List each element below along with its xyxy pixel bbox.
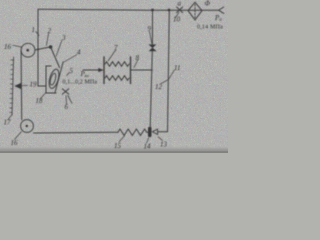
- wire: cord left run: [20, 51, 23, 120]
- leader 3: [56, 41, 62, 57]
- svg-text:13: 13: [160, 141, 168, 149]
- wire: top supply line: [38, 9, 219, 10]
- leader 4: [64, 55, 77, 63]
- svg-text:14: 14: [144, 143, 152, 151]
- leader 11: [168, 70, 174, 80]
- svg-text:0,14 МПа: 0,14 МПа: [197, 25, 223, 31]
- plate 14 (flapper plate): [148, 127, 152, 137]
- bottom dark band: [0, 146, 228, 154]
- svg-text:6: 6: [65, 103, 69, 111]
- node: junction line B: [168, 9, 171, 12]
- wire: line A vertical (to nozzle 9 and plate 14): [151, 10, 153, 44]
- nozzle 13 (open triangle): [152, 129, 157, 134]
- svg-text:1: 1: [32, 26, 36, 34]
- svg-text:7: 7: [114, 44, 118, 52]
- spring 15: [118, 129, 148, 135]
- valve a (restrictor X): [177, 7, 183, 13]
- leader 14: [147, 138, 149, 143]
- leader 19: [22, 84, 28, 87]
- svg-text:16: 16: [4, 43, 12, 51]
- nozzle 6 jet line: [68, 96, 72, 104]
- leader 15: [119, 136, 125, 142]
- cam 5 outer: [47, 68, 61, 89]
- bellows 7 right plate: [130, 57, 132, 84]
- wire: left vertical from corner down to nozzle bracket: [38, 9, 46, 86]
- node: cord crossing at frame line: [37, 48, 39, 50]
- svg-text:12: 12: [155, 83, 163, 91]
- svg-text:11: 11: [174, 64, 180, 72]
- leader 13: [158, 137, 162, 141]
- input arrow Pvx: [83, 69, 100, 71]
- svg-text:4: 4: [77, 49, 81, 57]
- spring 7 bottom: [105, 76, 129, 81]
- output fork arrow: [219, 7, 224, 13]
- filter F (diamond): [188, 2, 202, 20]
- bracket (nozzle housing): [46, 66, 56, 93]
- spring 7 top: [105, 62, 129, 67]
- scan background: [0, 0, 228, 153]
- scale 17: [12, 57, 14, 115]
- pulley 16 top: [21, 43, 35, 57]
- leader 10: [176, 12, 179, 17]
- nozzle 9 (bowtie): [149, 45, 156, 51]
- pointer 19: [15, 83, 21, 88]
- svg-text:10: 10: [173, 16, 181, 24]
- wire 8: [131, 69, 152, 71]
- leader 6: [65, 96, 68, 105]
- leader 9: [150, 32, 152, 44]
- nozzle 6 (X): [62, 89, 69, 94]
- svg-text:15: 15: [114, 142, 122, 150]
- svg-text:18: 18: [36, 97, 44, 105]
- wire: cord to lever pivot: [35, 47, 50, 50]
- svg-text:2: 2: [48, 27, 52, 35]
- leader 2: [46, 34, 48, 46]
- cam inner: [49, 73, 57, 86]
- leader 16 bottom: [15, 132, 22, 140]
- wire: cord bottom run: [34, 131, 119, 134]
- leader 17: [8, 115, 12, 120]
- wire: line B vertical down to arrow 13: [158, 10, 170, 132]
- leader 1: [36, 32, 39, 36]
- leader 7: [108, 50, 116, 62]
- lever 3: [51, 47, 60, 68]
- svg-text:3: 3: [61, 34, 66, 42]
- leader 12: [161, 80, 168, 84]
- svg-text:17: 17: [4, 119, 12, 127]
- leader 5: [67, 73, 70, 76]
- leader 18: [41, 93, 46, 99]
- svg-text:9: 9: [148, 25, 152, 33]
- pulley 16 bottom: [21, 120, 34, 133]
- bellows 7 left plate: [103, 57, 105, 84]
- svg-text:16: 16: [11, 139, 19, 147]
- leader 16 top: [13, 45, 22, 47]
- leader 8: [134, 60, 138, 68]
- node: pivot dot 2: [49, 45, 53, 49]
- svg-text:0,1...0,2 МПа: 0,1...0,2 МПа: [63, 80, 98, 86]
- flapper 4: [55, 62, 63, 93]
- svg-text:Ф: Ф: [205, 0, 211, 8]
- svg-text:19: 19: [30, 81, 38, 89]
- svg-text:5: 5: [70, 67, 74, 75]
- node: junction line A: [151, 9, 154, 12]
- svg-text:а: а: [178, 0, 182, 8]
- svg-text:8: 8: [136, 54, 140, 62]
